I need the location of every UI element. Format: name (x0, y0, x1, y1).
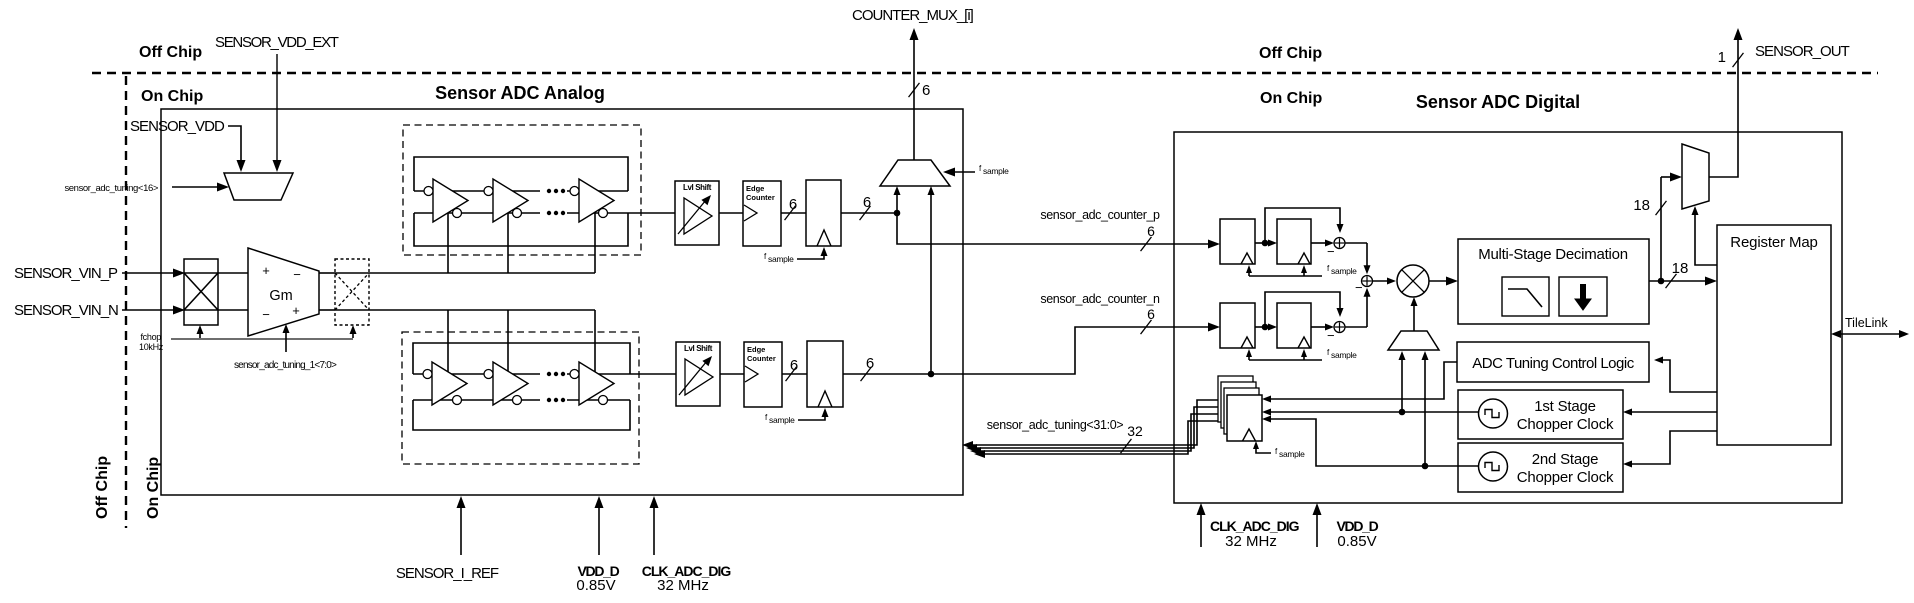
junction FF2 output (928, 371, 935, 378)
ring oscillator 2 dots lower (547, 398, 551, 402)
svg-text:−: − (293, 267, 301, 282)
wire output mux to SENSOR_OUT (1709, 36, 1738, 177)
ring oscillator 2 top feedback loop (413, 343, 630, 374)
svg-text:Sensor ADC Analog: Sensor ADC Analog (435, 83, 605, 103)
svg-text:COUNTER_MUX_[i]: COUNTER_MUX_[i] (852, 7, 974, 24)
svg-text:On Chip: On Chip (145, 457, 162, 519)
adder difference node (1362, 276, 1373, 287)
wire SENSOR_VDD elbow into VDD mux (228, 126, 241, 163)
block 1st Stage Chopper Clock (1458, 390, 1623, 439)
wire bias line n to bottom oscillator (369, 309, 595, 311)
wire CLK_ADC_DIG into analog block (653, 503, 655, 555)
svg-text:On Chip: On Chip (1260, 90, 1322, 107)
svg-text:sample: sample (1331, 350, 1357, 360)
wire multiplier to decimation (1429, 280, 1451, 282)
mux SENSOR_OUT select (1682, 144, 1709, 209)
chopper output switch box (dashed) (335, 259, 369, 325)
wire chopper to Gm (p) (218, 272, 248, 274)
level shifter 1 (675, 181, 719, 245)
block Multi-Stage Decimation (1458, 239, 1649, 324)
block Sensor ADC Digital outline (1174, 132, 1842, 503)
svg-text:sensor_adc_tuning<31:0>: sensor_adc_tuning<31:0> (987, 418, 1124, 432)
wire Gm out n (319, 309, 335, 311)
level shifter 2 (676, 342, 720, 406)
svg-text:1st Stage: 1st Stage (1534, 398, 1596, 415)
block 2nd Stage Chopper Clock (1458, 443, 1623, 492)
wire fsample tuning registers clock (1256, 447, 1271, 453)
svg-text:0.85V: 0.85V (1337, 533, 1376, 550)
wire oscillator 1 output to level shifter (628, 212, 675, 214)
svg-text:6: 6 (790, 357, 798, 374)
bubble 2a-in (423, 370, 432, 379)
svg-text:Edge: Edge (746, 184, 764, 193)
svg-text:−: − (1327, 244, 1335, 259)
svg-text:sample: sample (768, 254, 794, 264)
svg-text:Off Chip: Off Chip (94, 456, 111, 519)
bubble 2c-in (570, 370, 579, 379)
svg-text:6: 6 (1147, 223, 1155, 239)
ring oscillator 2 dashed box (402, 332, 639, 464)
bus sensor_adc_counter_n width 6 (931, 327, 1213, 374)
bubble 1a-out (453, 209, 462, 218)
wire SENSOR_I_REF into analog block (460, 503, 462, 555)
svg-text:sensor_adc_tuning<16>: sensor_adc_tuning<16> (64, 183, 158, 194)
inverter stage 2a (432, 362, 467, 405)
bus decimation to output mux width 18 (1660, 177, 1662, 281)
svg-text:+: + (262, 263, 270, 278)
block Sensor ADC Analog outline (161, 109, 963, 495)
wire lvl shift 2 to edge counter 2 (720, 373, 744, 375)
bus decimation to register map width 18 (1649, 280, 1710, 282)
bubble 2c-out (599, 396, 608, 405)
wire fsample FF2 clock (798, 414, 825, 420)
wire VDD_D into analog block (598, 503, 600, 555)
wire fsample FF1 clock (797, 253, 824, 259)
bus TileLink (1838, 333, 1902, 335)
wire chopper mux input 2 (1424, 356, 1426, 466)
ring oscillator 1 lower signal line (414, 212, 540, 214)
inverter stage 1a (433, 179, 468, 222)
ring oscillator 2 lower signal line (413, 399, 540, 401)
wire chopper mux input 1 (1401, 356, 1403, 412)
svg-text:sensor_adc_tuning_1<7:0>: sensor_adc_tuning_1<7:0> (234, 360, 337, 371)
svg-text:6: 6 (866, 355, 874, 372)
wire chain p to difference adder (1366, 243, 1368, 271)
wire 1st stage clock to tuning registers (1270, 411, 1402, 413)
bus COUNTER_MUX output width 6 (913, 36, 915, 160)
mux chopper clock select (1388, 331, 1439, 350)
ring oscillator 1 top feedback loop (414, 157, 628, 191)
svg-text:Sensor ADC Digital: Sensor ADC Digital (1416, 92, 1580, 112)
wire fsample into counter mux (950, 171, 975, 173)
svg-text:sensor_adc_counter_p: sensor_adc_counter_p (1040, 208, 1160, 222)
ring oscillator 1 bottom feedback loop (414, 213, 628, 246)
bubble 2a-out (453, 396, 462, 405)
wire difference to multiplier (1373, 280, 1390, 282)
svg-text:CLK_ADC_DIG: CLK_ADC_DIG (1210, 518, 1300, 534)
svg-text:2nd Stage: 2nd Stage (1532, 451, 1599, 468)
svg-text:SENSOR_OUT: SENSOR_OUT (1755, 43, 1850, 60)
mux VDD supply select (224, 173, 293, 200)
svg-text:Multi-Stage Decimation: Multi-Stage Decimation (1478, 246, 1628, 263)
wire bias line p to top oscillator (369, 272, 595, 274)
wire chopper mux to multiplier (1413, 303, 1415, 331)
svg-text:18: 18 (1633, 197, 1650, 214)
edge counter 1 (743, 181, 781, 246)
ring oscillator 2 upper signal line (413, 373, 540, 375)
bus FF2 output width 6 (843, 373, 931, 375)
svg-text:Chopper Clock: Chopper Clock (1517, 416, 1614, 433)
icon downsampler (1559, 277, 1607, 316)
wire register map to 2nd stage chopper clock (1631, 431, 1717, 464)
svg-text:18: 18 (1672, 260, 1689, 277)
chopper input switch box (184, 259, 218, 325)
svg-text:Chopper Clock: Chopper Clock (1517, 469, 1614, 486)
junction FF1 output (894, 210, 901, 217)
svg-text:6: 6 (1147, 306, 1155, 322)
wire SENSOR_VDD_EXT vertical into VDD mux (276, 54, 278, 164)
edge counter 2 (744, 342, 782, 407)
svg-text:SENSOR_VDD: SENSOR_VDD (130, 118, 225, 135)
svg-text:sample: sample (1279, 449, 1305, 459)
bus sensor_adc_tuning width 32 (1121, 439, 1132, 453)
svg-text:ADC Tuning Control Logic: ADC Tuning Control Logic (1472, 355, 1634, 372)
ring oscillator 1 upper signal line (414, 190, 540, 192)
svg-text:VDD_D: VDD_D (1337, 518, 1379, 534)
svg-text:SENSOR_VDD_EXT: SENSOR_VDD_EXT (215, 34, 339, 51)
ring oscillator 2 dots upper (547, 372, 551, 376)
bubble 2b-in (484, 370, 493, 379)
svg-text:6: 6 (789, 196, 797, 213)
svg-text:sample: sample (1331, 266, 1357, 276)
bubble 1c-in (570, 187, 579, 196)
svg-text:0.85V: 0.85V (576, 577, 615, 594)
wire Gm out p (319, 272, 335, 274)
svg-text:sample: sample (769, 415, 795, 425)
register chain counter_p (2 FFs, subtractor) (1220, 219, 1255, 264)
svg-text:1: 1 (1718, 49, 1726, 66)
svg-text:SENSOR_VIN_N: SENSOR_VIN_N (14, 302, 118, 319)
svg-text:Off Chip: Off Chip (139, 44, 202, 61)
bubble 1b-out (513, 209, 522, 218)
inverter stage 2b (493, 362, 528, 405)
bubble 1b-in (484, 187, 493, 196)
svg-text:32: 32 (1127, 423, 1143, 439)
wire FF2 to counter mux (930, 192, 932, 374)
wire fchop (171, 338, 353, 340)
svg-text:Register Map: Register Map (1730, 234, 1817, 251)
svg-text:Off Chip: Off Chip (1259, 45, 1322, 62)
svg-text:Lvl Shift: Lvl Shift (684, 344, 713, 353)
bubble 1c-out (599, 209, 608, 218)
bus FF1 output width 6 (841, 212, 897, 214)
multiplier (chopper demod) (1397, 265, 1429, 297)
wire SENSOR_VIN_P (122, 272, 178, 274)
ring oscillator 1 dots lower (547, 211, 551, 215)
svg-text:On Chip: On Chip (141, 88, 203, 105)
wire sensor_adc_tuning<16> arrow into VDD mux (172, 186, 222, 188)
svg-text:32 MHz: 32 MHz (657, 577, 709, 594)
wire chopper to Gm (n) (218, 309, 248, 311)
wire lvl shift 1 to edge counter 1 (719, 212, 743, 214)
flip-flop FF1 (analog) (806, 180, 841, 246)
wire SENSOR_VIN_N (122, 309, 178, 311)
bus sensor_adc_tuning<31:0> arrowheads (962, 441, 973, 449)
off-chip / on-chip boundary dashed vertical line (125, 76, 127, 528)
wire VDD_D into digital block (1316, 509, 1318, 547)
svg-text:+: + (292, 303, 300, 318)
block ADC Tuning Control Logic (1457, 342, 1649, 382)
bubble 2b-out (513, 396, 522, 405)
off-chip / on-chip boundary dashed horizontal line (92, 72, 1878, 74)
svg-text:Counter: Counter (747, 354, 776, 363)
wire ADC tuning logic to tuning registers (1270, 362, 1457, 399)
wire chain n to difference adder (1366, 291, 1368, 327)
wire CLK_ADC_DIG into digital block (1200, 509, 1202, 547)
wire register map to 1st stage chopper clock (1631, 411, 1717, 413)
svg-text:32 MHz: 32 MHz (1225, 533, 1277, 550)
wire sensor_adc_tuning_1 arrow into Gm (285, 331, 287, 352)
svg-text:TileLink: TileLink (1845, 316, 1888, 330)
flip-flop FF2 (analog) (807, 341, 843, 407)
wire register map to ADC tuning logic (1662, 360, 1717, 392)
wire register map select to output mux (1695, 212, 1717, 265)
svg-text:−: − (262, 307, 270, 322)
svg-text:Gm: Gm (269, 288, 292, 304)
svg-text:6: 6 (863, 194, 871, 211)
block Register Map (1717, 225, 1831, 445)
bus sensor_adc_counter_p width 6 (897, 213, 1213, 244)
icon lowpass filter (1502, 277, 1549, 316)
svg-text:Counter: Counter (746, 193, 775, 202)
ring oscillator 1 dots upper (547, 189, 551, 193)
svg-text:−: − (1355, 280, 1363, 295)
svg-text:Lvl Shift: Lvl Shift (683, 183, 712, 192)
tuning register stack output wires (969, 400, 1218, 445)
svg-text:sample: sample (983, 166, 1009, 176)
wire 2nd stage clock to tuning registers (1270, 419, 1458, 466)
mux COUNTER_MUX (880, 160, 950, 186)
svg-text:−: − (1327, 328, 1335, 343)
svg-text:SENSOR_VIN_P: SENSOR_VIN_P (14, 265, 118, 282)
tuning register stack (4 registers) (1218, 376, 1253, 422)
amplifier Gm (248, 248, 319, 336)
bus edge counter 1 to FF1 width 6 (781, 212, 806, 214)
svg-text:Edge: Edge (747, 345, 765, 354)
svg-text:fchop: fchop (140, 332, 161, 342)
svg-text:SENSOR_I_REF: SENSOR_I_REF (396, 565, 499, 582)
ring oscillator 1 dashed box (403, 125, 641, 255)
bubble 1a-in (424, 187, 433, 196)
register chain counter_n (2 FFs, subtractor) (1220, 303, 1255, 348)
wire oscillator 2 output to level shifter (630, 373, 676, 375)
svg-text:sensor_adc_counter_n: sensor_adc_counter_n (1040, 292, 1160, 306)
inverter stage 2c (579, 362, 614, 405)
inverter stage 1b (493, 179, 528, 222)
wire FF1 to counter mux (896, 192, 898, 213)
svg-text:6: 6 (922, 82, 930, 99)
ring oscillator 2 bottom feedback loop (413, 400, 630, 430)
bus edge counter 2 to FF2 width 6 (782, 373, 807, 375)
svg-text:10kHz: 10kHz (139, 342, 164, 352)
inverter stage 1c (579, 179, 614, 222)
